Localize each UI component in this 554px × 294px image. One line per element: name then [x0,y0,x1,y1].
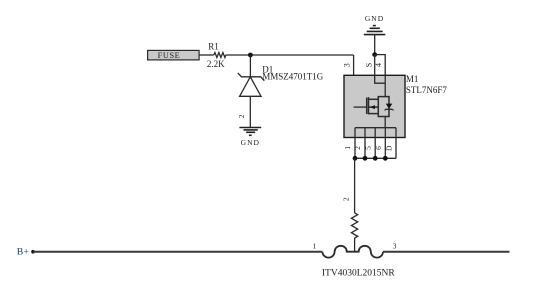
svg-text:GND: GND [365,14,384,23]
svg-text:3: 3 [343,63,352,67]
svg-text:B+: B+ [17,247,30,258]
svg-text:6: 6 [374,146,383,150]
inductor ITV4030L2015NR (horizontal winding) [313,241,397,278]
junction node (S/4 split) [372,52,377,57]
wire fuse to R1 [199,54,214,56]
svg-text:D: D [385,145,394,151]
wire pin 4 down to symbol [384,75,386,96]
wire gate lead [354,106,367,108]
resistor R1 2.2K [207,41,226,68]
svg-text:1: 1 [313,241,317,250]
wire GND down to S/4 junction [374,35,376,55]
wire junction to pin 4 (elbow) [375,55,386,76]
junction node (R1 / D1) [248,53,253,58]
wire zigzag to inductor center tap [354,238,356,252]
drain pin comb (pins 1 2 5 6 D) [355,128,396,159]
svg-text:FUSE: FUSE [158,51,181,60]
fuse F1 [148,50,200,60]
svg-text:2.2K: 2.2K [207,59,225,69]
svg-text:GND: GND [241,138,260,147]
svg-text:M1: M1 [406,74,419,84]
svg-text:4: 4 [374,63,383,67]
svg-text:2: 2 [353,146,362,150]
svg-text:MMSZ4701T1G: MMSZ4701T1G [262,72,324,82]
wire inductor pin 3 to right [383,251,510,253]
junction dots on drain bus [353,156,358,161]
svg-text:R1: R1 [208,41,219,51]
wire B+ to inductor pin 1 [33,251,322,253]
svg-text:2: 2 [342,197,351,201]
MOSFET M1 package box [344,74,447,137]
wire node to gate pin 3 (vertical) [343,55,354,107]
svg-text:S: S [364,63,373,67]
junction dot at B+ [31,250,35,254]
wire drain bus down to winding pin 2 [342,158,355,213]
inductor winding (vertical zigzag, pin 2) [351,213,357,238]
zener diode D1 MMSZ4701T1G [237,55,324,128]
ground GND (below D1) [239,128,261,148]
svg-text:ITV4030L2015NR: ITV4030L2015NR [322,268,395,278]
wire S pin inside box (staple) [375,75,386,83]
wire symbol bottom to drain comb [384,117,386,128]
svg-text:1: 1 [343,146,352,150]
svg-text:5: 5 [364,146,373,150]
wire junction to pin S [374,55,376,76]
wire R1 to gate corner [226,54,354,56]
ground GND (top, at M1 source) [364,14,386,35]
svg-text:3: 3 [393,241,397,250]
svg-text:2: 2 [237,114,246,118]
svg-text:STL7N6F7: STL7N6F7 [406,85,448,95]
MOSFET symbol M1 [367,97,394,117]
